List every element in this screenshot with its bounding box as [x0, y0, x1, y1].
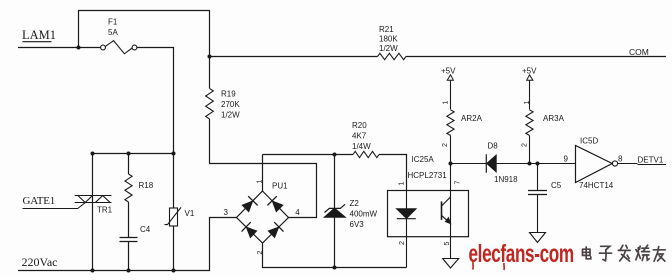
watermark chinese char 烧: [636, 245, 650, 260]
wire R18 to C4: [128, 202, 130, 237]
svg-text:2: 2: [399, 241, 406, 245]
diode D8: [486, 154, 496, 172]
capacitor C4: [120, 238, 138, 242]
wire fuse to V1 branch: [137, 48, 174, 154]
svg-text:2: 2: [442, 143, 449, 147]
fuse F1: [101, 41, 137, 54]
svg-text:1/4W: 1/4W: [352, 142, 371, 151]
node junction top bus at V1: [172, 152, 176, 156]
wire horizontal TR1/R18/V1 top bus: [93, 153, 174, 155]
svg-text:LAM1: LAM1: [22, 28, 56, 42]
svg-text:AR2A: AR2A: [461, 114, 483, 123]
opto LED diode: [397, 209, 416, 219]
svg-text:IC5D: IC5D: [580, 137, 598, 146]
opto LED wire bottom / pin 2: [406, 219, 408, 268]
svg-text:180K: 180K: [379, 35, 398, 44]
wire Z2 bottom: [334, 217, 336, 267]
resistor R19: [206, 88, 214, 119]
ground symbol below opto: [443, 259, 459, 269]
resistor AR3A: [526, 110, 533, 136]
svg-text:C4: C4: [140, 225, 151, 234]
svg-text:COM: COM: [629, 47, 649, 57]
svg-text:1/2W: 1/2W: [379, 44, 398, 53]
node junction Z2 top: [333, 153, 337, 157]
svg-text:R18: R18: [139, 181, 154, 190]
watermark chinese char 子: [600, 246, 612, 260]
svg-text:1: 1: [399, 182, 406, 186]
svg-text:400mW: 400mW: [350, 210, 378, 219]
svg-text:3: 3: [224, 208, 229, 217]
wire R20 to opto pin1: [379, 155, 407, 191]
wire bridge pin1 up to R20 bus: [262, 155, 264, 192]
inverter IC5D triangle: [576, 146, 613, 183]
svg-text:IC25A: IC25A: [412, 155, 435, 164]
svg-text:Z2: Z2: [350, 199, 360, 208]
wire R21 to COM: [406, 56, 666, 58]
inverter IC5D bubble: [612, 161, 617, 166]
bridge diode top-left: [242, 196, 258, 212]
wire R18 branch top: [128, 154, 130, 175]
svg-text:GATE1: GATE1: [23, 195, 56, 207]
svg-text:4K7: 4K7: [352, 132, 367, 141]
wire D8 to AR3A node: [496, 163, 529, 165]
svg-text:+5V: +5V: [441, 67, 456, 76]
ground symbol below C5: [530, 233, 546, 243]
varistor V1: [165, 207, 182, 226]
wire V1 to rail: [173, 226, 175, 271]
svg-text:R19: R19: [221, 90, 236, 99]
svg-text:270K: 270K: [221, 100, 240, 109]
svg-text:HCPL2731: HCPL2731: [408, 171, 448, 180]
net label DETV1: [638, 156, 667, 165]
node junction R21 tap: [208, 55, 212, 59]
svg-text:1: 1: [524, 101, 531, 105]
node junction LAM1/top-rail: [77, 46, 81, 50]
node junction rail at V1: [172, 269, 176, 273]
svg-text:AR3A: AR3A: [543, 114, 565, 123]
power +5V for AR2A: [441, 67, 456, 81]
watermark drip decorations: [473, 262, 505, 270]
wire AR3A node to IC5D input: [530, 163, 576, 165]
node junction top bus at R18: [127, 152, 131, 156]
wire GATE1 to triac gate: [23, 203, 86, 209]
wire 220Vac rail: [18, 218, 237, 271]
node junction top bus at TR1: [91, 152, 95, 156]
bridge diode bottom-right: [268, 222, 284, 238]
wire +5V to AR3A: [529, 80, 531, 109]
wire AR2A to node: [450, 136, 452, 164]
bridge diode top-right: [267, 196, 283, 212]
wire R20 bus: [263, 154, 354, 156]
svg-text:1N918: 1N918: [494, 175, 518, 184]
resistor AR2A: [447, 110, 454, 136]
svg-text:DETV1: DETV1: [638, 156, 664, 165]
node junction rail at TR1: [91, 269, 95, 273]
svg-text:74HCT14: 74HCT14: [579, 181, 614, 190]
svg-text:9: 9: [564, 155, 569, 164]
watermark chinese char 电: [583, 247, 591, 259]
opto-coupler IC25A box: [388, 191, 469, 237]
svg-text:2: 2: [522, 143, 529, 147]
node junction AR2A/D8/opto: [449, 162, 453, 166]
wire opto collector/emitter vertical: [450, 164, 452, 237]
bridge diode bottom-left: [242, 222, 258, 238]
wire TR1 branch vertical: [92, 154, 94, 271]
wire C4 to rail: [128, 242, 130, 271]
wire +5V to AR2A: [450, 80, 452, 109]
svg-text:D8: D8: [488, 142, 499, 151]
svg-text:8: 8: [618, 155, 623, 164]
power +5V for AR3A: [522, 67, 537, 81]
wire IC5D output: [618, 163, 638, 165]
node junction AR3A/D8 cathode: [528, 162, 532, 166]
wire AR3A to node: [529, 136, 531, 164]
opto transistor: [442, 197, 451, 224]
opto LED wire top: [406, 191, 408, 209]
svg-text:elecfans-com: elecfans-com: [469, 240, 574, 268]
net label LAM1: [22, 28, 56, 42]
svg-text:5A: 5A: [108, 28, 118, 37]
svg-text:220Vac: 220Vac: [22, 255, 58, 269]
svg-text:7: 7: [455, 181, 462, 185]
svg-text:6V3: 6V3: [350, 220, 365, 229]
svg-text:TR1: TR1: [97, 206, 113, 215]
wire R21 left: [210, 56, 378, 58]
wire Z2 top: [334, 155, 336, 209]
svg-text:R20: R20: [352, 121, 367, 130]
svg-text:C5: C5: [551, 181, 562, 190]
wire R21-tap to R19: [209, 57, 211, 89]
triac TR1: [75, 196, 112, 203]
wire opto pin5 to ground: [450, 237, 452, 259]
wire top rail from LAM1 node to R21 node: [79, 11, 210, 57]
wire R19 to bridge pin4: [210, 119, 317, 218]
capacitor C5: [528, 191, 547, 195]
resistor R21: [378, 53, 407, 59]
zener diode Z2: [325, 204, 346, 217]
node junction Z2 bottom: [333, 266, 337, 270]
resistor R20: [353, 151, 379, 157]
resistor R18: [125, 174, 132, 202]
wire bridge pin2 down to return bus: [263, 243, 407, 268]
watermark chinese char 发: [618, 245, 630, 261]
node junction C5 tap: [536, 162, 540, 166]
watermark chinese char 友: [653, 247, 665, 262]
node junction rail at C4: [127, 269, 131, 273]
svg-text:R21: R21: [379, 25, 394, 34]
wire V1 branch top: [173, 154, 175, 209]
wire C5 bottom to ground: [537, 195, 539, 233]
svg-text:F1: F1: [108, 18, 118, 27]
wire LAM1 to fuse: [18, 47, 101, 49]
svg-text:V1: V1: [185, 209, 195, 218]
svg-text:4: 4: [295, 208, 300, 217]
svg-text:PU1: PU1: [272, 182, 288, 191]
svg-text:1: 1: [443, 101, 450, 105]
wire C5 top: [537, 164, 539, 191]
wire opto node to D8: [451, 163, 487, 165]
bridge rectifier PU1 diamond: [237, 191, 289, 243]
svg-text:1/2W: 1/2W: [221, 111, 240, 120]
